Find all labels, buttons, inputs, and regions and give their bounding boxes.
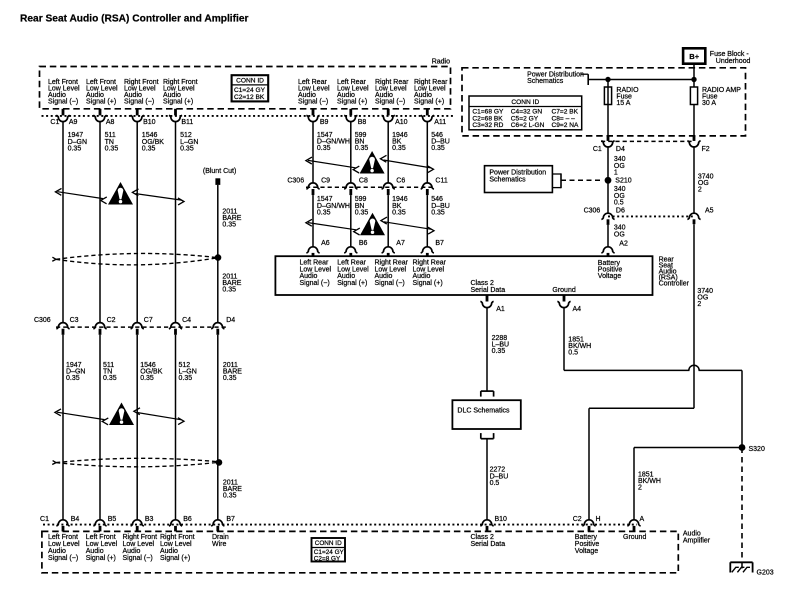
svg-text:Rear Seat Audio (RSA) Controll: Rear Seat Audio (RSA) Controller and Amp… — [20, 14, 249, 25]
wire B+ feed — [693, 64, 695, 87]
svg-text:C2=12 BK: C2=12 BK — [234, 94, 265, 101]
pin B8 — [349, 109, 352, 116]
svg-text:30 A: 30 A — [702, 100, 716, 107]
svg-text:Ground: Ground — [623, 534, 646, 541]
twisted-wire caution arrow — [57, 412, 105, 419]
wire rear audio 2 lower — [350, 195, 352, 247]
svg-text:Signal (+): Signal (+) — [337, 99, 367, 106]
pin C7 — [131, 323, 144, 329]
pin A11 — [426, 109, 429, 116]
pin B7 (drain) — [211, 520, 224, 526]
off-page connector (bottom) — [480, 433, 482, 439]
svg-text:Signal (+): Signal (+) — [414, 99, 444, 106]
junction — [605, 77, 610, 82]
wire drain lower — [217, 335, 219, 520]
svg-text:0.35: 0.35 — [103, 375, 117, 382]
svg-text:Signal (−): Signal (−) — [298, 99, 328, 106]
svg-text:0.35: 0.35 — [66, 375, 80, 382]
svg-text:0.35: 0.35 — [179, 375, 193, 382]
svg-text:Signal (+): Signal (+) — [160, 555, 190, 562]
svg-text:0.35: 0.35 — [392, 145, 406, 152]
pin D4 (drain) — [211, 323, 224, 329]
svg-text:D6: D6 — [616, 208, 625, 215]
svg-text:Signal (−): Signal (−) — [48, 555, 78, 562]
dashed wire to ground G203 — [741, 448, 743, 563]
svg-text:Underhood: Underhood — [716, 58, 751, 65]
conn id table fuse block — [469, 96, 582, 130]
wire front audio 4 upper — [175, 122, 177, 323]
pin C8 — [344, 183, 357, 189]
warning triangle — [360, 151, 385, 174]
svg-text:1: 1 — [614, 169, 618, 176]
svg-text:Signal (+): Signal (+) — [86, 99, 116, 106]
svg-text:Signal (+): Signal (+) — [337, 280, 367, 287]
pin B5 — [93, 520, 106, 526]
bracket from power distribution label — [581, 73, 589, 75]
wire front audio 1 lower — [62, 335, 64, 520]
wire front audio 2 lower — [99, 335, 101, 520]
svg-text:Signal (+): Signal (+) — [86, 555, 116, 562]
wire rear audio 4 lower — [426, 195, 428, 247]
DLC Schematics reference box — [452, 400, 520, 429]
svg-text:Power Distribution: Power Distribution — [489, 170, 546, 177]
svg-text:DLC Schematics: DLC Schematics — [457, 408, 510, 415]
wire 2288 L-BU 0.35 — [486, 308, 488, 392]
svg-text:C306: C306 — [584, 208, 601, 215]
dashed reference wire to S210 — [561, 179, 603, 181]
svg-text:Low Level: Low Level — [123, 541, 155, 548]
svg-text:Signal (−): Signal (−) — [124, 99, 154, 106]
pin C4 — [169, 323, 182, 329]
pin A8 — [99, 109, 102, 116]
svg-text:Audio: Audio — [160, 548, 178, 555]
fuse RADIO AMP 30A — [690, 87, 697, 105]
svg-text:Class 2: Class 2 — [471, 534, 494, 541]
pin A — [627, 520, 640, 526]
wire rear audio 1 upper — [312, 122, 314, 183]
connector line C306 dotted to A5 — [608, 215, 694, 217]
svg-text:C9: C9 — [321, 177, 330, 184]
svg-text:A4: A4 — [573, 306, 582, 313]
splice S210 — [605, 177, 612, 184]
svg-text:C2: C2 — [107, 317, 116, 324]
pin C11 — [421, 183, 434, 189]
svg-text:A2: A2 — [619, 240, 628, 247]
svg-text:Low Level: Low Level — [48, 541, 80, 548]
svg-text:C11: C11 — [435, 177, 447, 184]
Rear Seat Audio (RSA) Controller box — [275, 256, 652, 295]
svg-text:Low Level: Low Level — [160, 541, 192, 548]
pin C3 — [56, 323, 69, 329]
connector line C1/C2 (amplifier) — [43, 524, 637, 526]
svg-text:A8: A8 — [106, 119, 115, 126]
svg-text:Serial Data: Serial Data — [471, 541, 506, 548]
wire rear audio 1 lower — [312, 195, 314, 247]
svg-text:B11: B11 — [181, 119, 193, 126]
svg-text:S320: S320 — [749, 446, 765, 453]
svg-text:D4: D4 — [616, 146, 625, 153]
svg-text:G203: G203 — [757, 570, 774, 577]
svg-text:0.35: 0.35 — [431, 209, 445, 216]
svg-text:CONN ID: CONN ID — [236, 78, 264, 85]
svg-text:Schematics: Schematics — [527, 78, 564, 85]
splice S320 — [739, 444, 746, 451]
svg-text:Right Front: Right Front — [123, 534, 158, 541]
pin A1 — [486, 295, 489, 302]
shield ellipse (front lower) — [52, 458, 221, 467]
svg-text:D4: D4 — [226, 317, 235, 324]
wire fuse radio drop — [607, 80, 609, 141]
svg-text:0.35: 0.35 — [140, 375, 154, 382]
wire front audio 2 upper — [99, 122, 101, 323]
drain junction — [216, 459, 223, 466]
svg-text:Left Front: Left Front — [86, 534, 116, 541]
pin C9 — [306, 183, 319, 189]
wire rear audio 2 upper — [350, 122, 352, 183]
svg-text:A: A — [640, 516, 645, 523]
svg-text:B6: B6 — [183, 516, 192, 523]
svg-text:Controller: Controller — [659, 280, 690, 287]
wire rear audio 3 lower — [387, 195, 389, 247]
twisted-wire caution arrow — [308, 223, 356, 230]
svg-text:B5: B5 — [108, 516, 117, 523]
pin B10 — [480, 520, 493, 526]
connector line (radio) — [42, 115, 454, 117]
fuse block underhood box — [462, 68, 746, 136]
conn id table amplifier C1=24 GY C2=8 GY — [312, 538, 346, 562]
wire front audio 3 upper — [136, 122, 138, 323]
warning triangle — [108, 182, 133, 205]
twisted-wire caution arrow — [58, 192, 104, 199]
svg-text:0.35: 0.35 — [223, 375, 237, 382]
svg-text:Radio: Radio — [432, 58, 450, 65]
ground G203 — [730, 561, 752, 563]
svg-text:2: 2 — [638, 485, 642, 492]
wire front audio 1 upper — [62, 122, 64, 323]
off-page connector (top) — [481, 390, 494, 392]
pin B4 — [56, 520, 69, 526]
svg-text:A6: A6 — [321, 240, 330, 247]
svg-text:B10: B10 — [143, 119, 156, 126]
power distribution schematics reference box — [485, 166, 553, 193]
svg-text:C2=8 GY: C2=8 GY — [314, 555, 341, 562]
junction — [691, 77, 696, 82]
wire 3740 OG 2 (lower) — [693, 224, 695, 408]
pin C6 — [382, 183, 395, 189]
svg-text:Ground: Ground — [552, 287, 575, 294]
svg-text:H: H — [596, 516, 601, 523]
svg-text:Audio: Audio — [123, 548, 141, 555]
pin A4 — [563, 295, 566, 302]
svg-text:0.35: 0.35 — [180, 145, 194, 152]
svg-text:B8: B8 — [358, 119, 367, 126]
svg-text:2: 2 — [697, 301, 701, 308]
svg-text:0.35: 0.35 — [317, 209, 331, 216]
svg-text:B9: B9 — [320, 119, 329, 126]
svg-text:C1: C1 — [40, 516, 49, 523]
svg-text:Schematics: Schematics — [489, 177, 526, 184]
svg-text:B4: B4 — [71, 516, 80, 523]
svg-text:C306: C306 — [287, 177, 304, 184]
connector C306 (front wires) — [56, 326, 226, 328]
svg-text:Signal (−): Signal (−) — [123, 555, 153, 562]
wire 3740 OG 2 (upper) — [693, 147, 695, 214]
svg-text:CONN ID: CONN ID — [315, 540, 342, 547]
svg-text:Low Level: Low Level — [86, 541, 118, 548]
wire 1851 BK/WH 0.5 — [563, 308, 565, 371]
B+ power symbol — [683, 48, 705, 63]
svg-text:0.35: 0.35 — [431, 145, 445, 152]
wire to amplifier ground — [634, 447, 742, 449]
svg-text:Drain: Drain — [212, 534, 229, 541]
svg-text:C3: C3 — [70, 317, 79, 324]
svg-text:15 A: 15 A — [616, 100, 630, 107]
svg-text:Wire: Wire — [212, 541, 226, 548]
pin C2 — [93, 323, 106, 329]
pin D4 — [607, 136, 610, 141]
wire rear audio 3 upper — [387, 122, 389, 183]
fuse RADIO 15A — [604, 87, 611, 105]
svg-text:Signal (−): Signal (−) — [48, 99, 78, 106]
svg-text:A9: A9 — [69, 119, 78, 126]
svg-text:Voltage: Voltage — [575, 548, 598, 555]
pin B9 — [312, 109, 315, 116]
svg-text:0.35: 0.35 — [492, 348, 506, 355]
svg-text:Serial Data: Serial Data — [471, 287, 506, 294]
connector line C1 (RSA) — [601, 140, 694, 142]
svg-text:Amplifier: Amplifier — [683, 537, 711, 544]
svg-text:B3: B3 — [145, 516, 154, 523]
radio component box — [40, 67, 451, 109]
svg-text:Signal (−): Signal (−) — [375, 99, 405, 106]
svg-text:C2: C2 — [573, 516, 582, 523]
svg-text:Battery: Battery — [575, 534, 598, 541]
svg-text:Positive: Positive — [575, 541, 600, 548]
pin B11 — [174, 109, 177, 116]
svg-text:0.35: 0.35 — [68, 145, 82, 152]
svg-text:Audio: Audio — [86, 548, 104, 555]
svg-text:A10: A10 — [395, 119, 408, 126]
svg-text:Right Front: Right Front — [160, 534, 195, 541]
svg-text:F2: F2 — [702, 146, 710, 153]
svg-text:0.35: 0.35 — [222, 287, 236, 294]
wire drain 2011 BARE upper — [217, 185, 219, 323]
shield ellipse (front) — [52, 253, 218, 264]
svg-text:Signal (−): Signal (−) — [300, 280, 330, 287]
svg-text:C6: C6 — [396, 177, 405, 184]
svg-text:0.35: 0.35 — [355, 209, 369, 216]
svg-text:C8: C8 — [359, 177, 368, 184]
svg-text:CONN ID: CONN ID — [511, 99, 539, 106]
conn id table radio C1=24 GY C2=12 BK — [232, 75, 269, 101]
svg-text:2: 2 — [698, 186, 702, 193]
pin B6 — [169, 520, 182, 526]
svg-text:Class 2: Class 2 — [471, 280, 494, 287]
svg-text:S210: S210 — [615, 178, 631, 185]
svg-text:Fuse Block -: Fuse Block - — [710, 51, 750, 58]
svg-text:Signal (−): Signal (−) — [375, 280, 405, 287]
svg-text:0.5: 0.5 — [614, 199, 624, 206]
connector C306 (rear wires) — [306, 186, 434, 188]
svg-text:B6: B6 — [359, 240, 368, 247]
svg-text:B7: B7 — [226, 516, 235, 523]
svg-text:OG: OG — [614, 231, 625, 238]
audio amplifier box — [42, 531, 678, 572]
warning triangle — [360, 213, 385, 236]
svg-text:Audio: Audio — [48, 548, 66, 555]
twisted-wire caution arrow — [308, 160, 356, 167]
svg-text:B10: B10 — [495, 516, 508, 523]
svg-text:Left Front: Left Front — [48, 534, 78, 541]
svg-text:Signal (+): Signal (+) — [163, 99, 193, 106]
wire front audio 4 lower — [175, 335, 177, 520]
svg-text:0.5: 0.5 — [490, 480, 500, 487]
svg-text:B+: B+ — [689, 52, 699, 61]
drain junction — [215, 254, 222, 261]
wire label 340 OG — [607, 225, 609, 247]
svg-text:C306: C306 — [34, 317, 51, 324]
svg-text:C7: C7 — [144, 317, 153, 324]
svg-text:C1: C1 — [50, 119, 59, 126]
svg-text:0.35: 0.35 — [105, 145, 119, 152]
pin F2 — [693, 136, 696, 141]
svg-text:0.35: 0.35 — [222, 222, 236, 229]
svg-text:A7: A7 — [396, 240, 405, 247]
wire front audio 3 lower — [136, 335, 138, 520]
svg-text:Signal (+): Signal (+) — [413, 280, 443, 287]
svg-text:C1: C1 — [593, 146, 602, 153]
svg-text:0.5: 0.5 — [568, 350, 578, 357]
svg-text:C6=2 L-GN: C6=2 L-GN — [511, 122, 545, 129]
svg-text:A5: A5 — [705, 208, 714, 215]
wire 340 OG — [607, 147, 609, 214]
bracket to splice — [552, 173, 561, 175]
wire ground run with hop over 3740 — [564, 365, 742, 370]
wire rear audio 4 upper — [426, 122, 428, 183]
svg-text:0.35: 0.35 — [317, 145, 331, 152]
svg-text:0.35: 0.35 — [223, 492, 237, 499]
svg-text:0.35: 0.35 — [392, 209, 406, 216]
svg-text:(Blunt Cut): (Blunt Cut) — [203, 168, 236, 175]
svg-text:C9=2 NA: C9=2 NA — [552, 122, 580, 129]
blunt cut end — [215, 178, 220, 185]
warning triangle — [109, 403, 134, 426]
svg-text:C4: C4 — [182, 317, 191, 324]
svg-text:0.35: 0.35 — [355, 145, 369, 152]
svg-text:A11: A11 — [434, 119, 446, 126]
svg-text:A1: A1 — [496, 306, 505, 313]
svg-text:0.35: 0.35 — [142, 145, 156, 152]
svg-text:B7: B7 — [435, 240, 444, 247]
svg-text:Voltage: Voltage — [598, 273, 621, 280]
wire fuse radio amp drop — [693, 105, 695, 141]
svg-text:C3=32 RD: C3=32 RD — [472, 122, 503, 129]
wire 2272 D-BU 0.5 — [486, 439, 488, 520]
pin B3 — [131, 520, 144, 526]
pin B10 — [136, 109, 139, 116]
pin A9 — [62, 109, 65, 116]
pin A10 — [387, 109, 390, 116]
